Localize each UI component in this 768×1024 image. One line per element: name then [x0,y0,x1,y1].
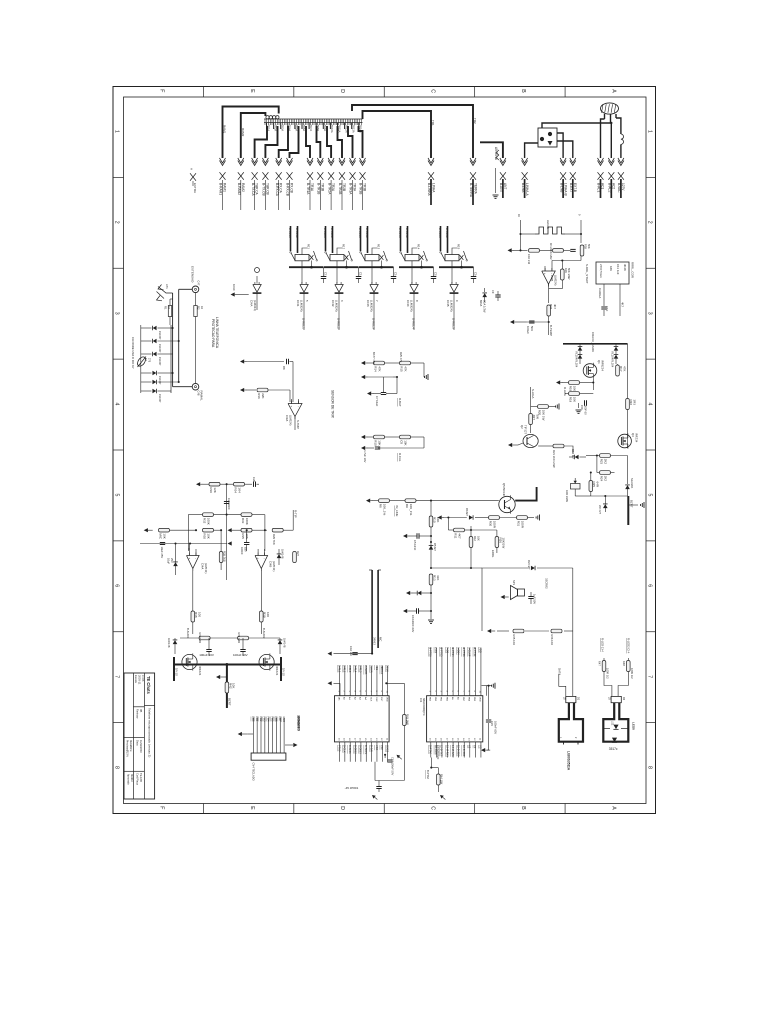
title block [124,673,155,799]
svg-text:CA ONDE USA O FIO K7: CA ONDE USA O FIO K7 [131,337,135,369]
svg-text:10K: 10K [378,440,382,445]
timer feedback line [580,256,582,261]
svg-text:T&R.CB: T&R.CB [265,183,269,195]
svg-text:R13: R13 [377,244,381,250]
svg-text:R39: R39 [263,612,267,618]
svg-text:Escala: Escala [134,675,138,683]
svg-text:RST: RST [380,697,382,702]
svg-text:47K: 47K [404,366,408,371]
resistor R2 [194,306,197,317]
svg-text:Q1: Q1 [597,360,601,364]
sensor rows left [240,359,244,363]
svg-text:M-PT03: M-PT03 [462,647,466,657]
svg-text:B: B [520,806,526,810]
svg-text:1uF 50V: 1uF 50V [533,594,537,604]
svg-text:R38: R38 [584,244,588,249]
svg-text:TR2B: TR2B [342,183,346,191]
svg-text:A-D04: A-D04 [456,647,460,655]
svg-text:TR1B: TR1B [320,183,324,191]
svg-text:R47: R47 [598,661,602,666]
svg-text:2: 2 [647,221,653,224]
svg-text:SERIAL: SERIAL [380,665,384,675]
terminal CN2 top [192,286,199,293]
svg-text:R23: R23 [600,459,604,465]
bus wire W8 [317,126,321,158]
diode D12 [575,455,579,460]
svg-text:TE-10B: TE-10B [139,773,143,782]
svg-text:C6 100nF 63V: C6 100nF 63V [411,615,415,633]
svg-text:0B: 0B [139,709,143,712]
svg-text:100R 1/2: 100R 1/2 [606,668,610,679]
svg-text:B-RX.CB: B-RX.CB [286,183,290,196]
bus wire W7 [306,126,310,158]
svg-text:1N4148: 1N4148 [167,638,171,648]
svg-text:R2: R2 [197,306,201,310]
diode D23 [278,640,283,644]
svg-text:RRRL_COR: RRRL_COR [631,262,635,278]
svg-text:B-TR1A: B-TR1A [306,183,310,195]
svg-text:1N4007: 1N4007 [158,394,161,403]
cap C14 [584,400,586,405]
svg-text:(LM324): (LM324) [410,300,414,312]
output net [548,289,550,303]
svg-text:10K: 10K [404,440,408,445]
svg-text:R9: R9 [405,504,409,508]
feed wires to IC1 [371,570,373,654]
svg-text:D5 M7: D5 M7 [433,543,437,551]
trimpot TP1 [571,484,581,490]
svg-text:CI4A: CI4A [201,563,205,569]
svg-text:CN4 TECLADO: CN4 TECLADO [252,763,256,781]
svg-text:-: - [195,556,196,560]
svg-text:RAM2: RAM2 [241,128,245,137]
svg-text:56K 1/4W: 56K 1/4W [567,268,571,280]
svg-text:1N4007: 1N4007 [158,344,161,353]
svg-text:TR7A: TR7A [309,125,313,132]
svg-text:100uF: 100uF [526,326,530,334]
svg-text:C8: C8 [400,440,404,444]
left branch [530,387,532,433]
svg-text:TR2A: TR2A [331,183,335,192]
svg-text:R15: R15 [457,244,461,250]
svg-text:300F 60: 300F 60 [583,405,587,415]
svg-text:B-TR2A: B-TR2A [327,183,331,195]
driver U5 [450,285,458,293]
svg-text:RL204: RL204 [575,360,579,368]
terminal CN3 bottom [192,383,199,390]
svg-text:TIP127: TIP127 [523,425,527,434]
svg-text:R42: R42 [228,683,232,689]
svg-text:100R: 100R [521,521,525,529]
svg-text:CI41: CI41 [296,300,300,307]
svg-text:CI3A: CI3A [285,415,289,421]
MOSFET Q3 [618,434,632,448]
svg-text:100R8W3: 100R8W3 [297,715,301,729]
svg-text:B-AUD2: B-AUD2 [262,628,266,639]
svg-text:TERRA: TERRA [473,183,477,195]
cap at node [529,320,534,322]
svg-text:10K 1W: 10K 1W [542,410,546,421]
MOSFET Q1 [583,364,597,378]
svg-text:R29 7K8: R29 7K8 [272,534,276,545]
svg-text:Q3: Q3 [631,433,635,437]
svg-text:RAM1: RAM1 [223,125,227,134]
svg-text:C7 10uF: C7 10uF [375,396,379,407]
svg-text:(LM324): (LM324) [288,415,292,425]
svg-text:11/11/2003: 11/11/2003 [139,740,143,753]
svg-text:X2: X2 [468,745,472,749]
cap C5 [416,533,418,538]
off-page arrow EXT [190,173,196,181]
svg-text:-: - [264,556,265,560]
resistor R26 [495,537,499,548]
module X2 wires [603,284,605,306]
bus wire W5 [279,126,288,158]
svg-text:3: 3 [114,312,120,315]
driver U1 [300,285,308,293]
svg-text:TR13A: TR13A [352,125,356,133]
resistor R17 [616,365,620,376]
module LIU [559,703,583,742]
svg-text:R.CAL: R.CAL [398,453,402,462]
bus wire W2 [241,113,266,158]
zener D14 [603,504,608,508]
svg-text:R.LMA: R.LMA [563,387,567,396]
svg-text:C16: C16 [474,272,478,278]
svg-text:R14: R14 [374,366,378,372]
svg-text:S-TRIP: S-TRIP [296,420,300,429]
connector CN1 edge strip [264,118,363,120]
svg-text:R-TIP: R-TIP [294,510,298,518]
svg-text:SENSOR DE TRIP.: SENSOR DE TRIP. [331,390,335,419]
svg-text:B-RL1A: B-RL1A [288,228,292,238]
svg-text:B-RL1B: B-RL1B [295,228,299,238]
svg-text:275: 275 [147,358,150,363]
cap C6 [416,608,418,613]
svg-text:LINHA-A: LINHA-A [525,183,529,196]
emitter resistors [489,516,500,520]
jack top wire to plug [542,123,611,128]
svg-text:C5 10nF: C5 10nF [413,540,417,551]
svg-text:EXTENSAO: EXTENSAO [190,266,194,283]
svg-text:EXTRA: EXTRA [193,183,197,193]
svg-text:SP1: SP1 [512,580,516,586]
resistor R43 feedback [386,682,404,684]
svg-text:R36: R36 [209,487,213,493]
svg-text:ECGRAGO: ECGRAGO [436,745,440,760]
gate feed [556,380,560,384]
off-page arrows row 1 right [500,161,506,166]
thick node bar [627,496,629,525]
svg-text:B-TEMP: B-TEMP [549,325,553,336]
svg-text:B-REL1: B-REL1 [302,318,306,329]
svg-text:LINHA-B: LINHA-B [563,183,567,196]
driver U3 [370,285,378,293]
svg-text:10K: 10K [232,683,236,688]
svg-text:A: A [610,89,616,93]
svg-text:B-RAM1: B-RAM1 [219,183,223,195]
svg-text:E: E [249,89,255,93]
svg-text:B-RL3A: B-RL3A [358,228,362,238]
svg-text:2K2: 2K2 [604,459,608,465]
svg-text:M-PT02: M-PT02 [473,647,477,657]
relay K3 [360,226,362,251]
svg-text:M-PT06: M-PT06 [429,647,433,657]
resistor R42 [225,682,229,693]
svg-text:Cod Placa: Cod Placa [136,773,140,786]
svg-text:B-RL4A: B-RL4A [398,228,402,238]
IC1 CI2 [335,696,390,742]
svg-text:B-RL5B: B-RL5B [445,228,449,238]
svg-text:2767,5mm: 2767,5mm [599,264,603,278]
diode D5 [429,546,434,550]
op-amp U10 [255,556,268,569]
svg-text:R4 22K6 1/02: R4 22K6 1/02 [549,243,553,260]
svg-text:1N4148: 1N4148 [283,638,287,648]
svg-text:56K: 56K [587,244,591,249]
svg-text:100uF 50V: 100uF 50V [233,653,248,657]
svg-text:F: F [158,89,164,92]
bus wire W14 long [352,105,473,158]
resistor R11 [454,528,465,532]
svg-text:B-RL4B: B-RL4B [405,228,409,238]
svg-text:VDD: VDD [385,697,387,702]
svg-text:AC2: AC2 [612,183,616,189]
svg-text:100: 100 [266,612,270,617]
svg-text:68HC908QY4: 68HC908QY4 [422,698,426,716]
svg-text:C15: C15 [434,272,438,278]
zone ticks and labels [113,176,124,178]
feedback resistor R39 [561,269,565,280]
svg-text:R31: R31 [517,521,521,527]
fuse F1 [621,134,624,144]
diode DL6 [152,389,156,394]
svg-text:PD1: PD1 [255,717,258,722]
svg-text:CI4B: CI4B [269,561,273,567]
svg-text:R45 1K0: R45 1K0 [512,635,516,646]
svg-text:R11: R11 [454,533,458,539]
driver U4 [410,285,418,293]
amp out resistors [191,611,195,622]
svg-text:Metalfilme: Metalfilme [129,740,132,752]
svg-text:B-RL4: B-RL4 [353,665,357,673]
svg-text:(LM324): (LM324) [450,300,454,312]
svg-text:C13: C13 [359,272,363,278]
svg-text:CARGA: CARGA [598,288,602,298]
bus wire W4 [265,126,277,158]
svg-text:(LM324): (LM324) [335,300,339,312]
svg-text:34063: 34063 [373,637,377,645]
arrow to R42 [216,675,220,679]
svg-text:10uF: 10uF [167,558,171,564]
off-page arrows row 1 [220,161,226,166]
svg-text:LINHA TELEFONICA: LINHA TELEFONICA [215,317,219,349]
svg-text:4.7uF 16V: 4.7uF 16V [363,450,367,463]
svg-text:CLK: CLK [369,697,371,702]
svg-text:RX.CB: RX.CB [290,183,294,193]
svg-text:D24 M7: D24 M7 [527,560,531,570]
svg-text:14-M-SA1: 14-M-SA1 [451,745,455,757]
svg-text:Data: Data [136,740,140,746]
svg-text:100: 100 [198,612,202,617]
svg-text:B-LINHA: B-LINHA [427,183,431,196]
svg-text:150: 150 [580,405,584,410]
svg-text:B-LNB: B-LNB [559,183,563,192]
antenna arrester E1 [158,287,173,294]
svg-text:A: A [610,806,616,810]
svg-text:(LM741): (LM741) [272,561,276,571]
svg-text:3517c: 3517c [609,747,618,751]
svg-text:R38: R38 [194,612,198,618]
svg-text:R33: R33 [241,518,245,524]
svg-text:10uF 25V: 10uF 25V [160,547,164,559]
svg-text:PROTECAO PARA: PROTECAO PARA [211,319,215,348]
svg-text:100K: 100K [245,518,249,525]
svg-text:Q5 BD140: Q5 BD140 [502,483,506,497]
thick output bus [174,664,281,666]
svg-text:2003-11: 2003-11 [137,675,141,685]
svg-text:R25 47K: R25 47K [399,352,403,363]
svg-text:VD1: VD1 [375,665,379,671]
svg-text:4R7: 4R7 [532,415,536,421]
svg-text:15-B-SD0: 15-B-SD0 [456,745,460,757]
ground g1 [578,403,580,408]
IC2 CI1 micro [427,696,483,742]
cap C7 [381,392,386,394]
diode D13 [625,485,630,489]
row2 [203,513,214,517]
svg-text:C: C [430,806,436,810]
svg-text:C10 1n0: C10 1n0 [527,254,531,265]
diode D22 [173,640,178,644]
antenna bus wire [480,142,503,158]
speaker enclosure [482,568,528,631]
cal rows [361,435,365,439]
svg-text:B-AUD1: B-AUD1 [364,665,368,675]
svg-text:PD5: PD5 [270,717,273,722]
svg-text:BAT? 47K: BAT? 47K [372,352,376,364]
svg-text:B-AUD1: B-AUD1 [186,628,190,639]
svg-text:(LM324): (LM324) [370,300,374,312]
diode D10 [482,293,487,297]
svg-text:22K: 22K [261,393,265,398]
svg-text:TE Chats: TE Chats [146,676,151,694]
svg-text:10UF: 10UF [232,284,236,291]
svg-text:RX.CA: RX.CA [279,183,283,194]
svg-text:R11: R11 [307,244,311,249]
resistor R12 [469,537,473,548]
svg-text:10K: 10K [573,397,577,402]
svg-text:R30: R30 [203,533,207,539]
CN1 pin stubs [266,123,268,129]
svg-text:1: 1 [647,130,653,133]
svg-text:10K: 10K [476,536,480,541]
svg-text:7: 7 [647,675,653,678]
svg-text:M-PT04: M-PT04 [451,647,455,657]
svg-text:3: 3 [647,312,653,315]
svg-text:4K7: 4K7 [553,304,557,309]
svg-text:CI43: CI43 [366,300,370,307]
ferrite coils on CN1 [266,116,269,119]
svg-text:C12: C12 [324,272,328,278]
transistor Q4 [499,496,515,512]
diode DL1 [153,326,157,331]
svg-text:GND: GND [282,717,285,723]
svg-text:R43 1M0: R43 1M0 [406,714,410,725]
svg-text:3R3: 3R3 [632,400,636,406]
svg-text:OSC2: OSC2 [385,745,389,753]
bottom resistors [513,629,524,633]
bus wire W6 [290,126,299,158]
svg-text:B-TX.CB: B-TX.CB [262,183,266,196]
svg-text:R-BAT: R-BAT [398,398,402,407]
svg-text:B-TR2B: B-TR2B [338,183,342,194]
driver U6 column [256,276,258,284]
svg-text:R41 10R: R41 10R [237,633,241,644]
protection wires [179,288,193,290]
svg-text:S-LIGA: S-LIGA [531,389,535,399]
svg-text:CI44: CI44 [406,300,410,307]
svg-text:TR10A: TR10A [330,125,334,133]
input row IN_LINE [366,499,370,503]
diode DL2 [153,339,157,344]
svg-text:5: 5 [647,493,653,496]
bus wire W10 [338,126,343,158]
svg-text:B-TX.CA: B-TX.CA [251,183,255,196]
svg-text:3K48: 3K48 [623,264,627,271]
svg-text:4K7: 4K7 [458,533,462,539]
svg-text:B-AC2: B-AC2 [608,183,612,193]
svg-text:R19: R19 [569,397,573,403]
svg-text:1N4148: 1N4148 [281,549,285,559]
ground near antenna [495,168,497,193]
resistor R1 link [169,317,171,326]
header CN4 [251,753,286,760]
svg-text:B-VAC: B-VAC [617,183,621,193]
svg-text:TR3A: TR3A [281,125,285,132]
svg-text:AT1: AT1 [165,284,169,289]
svg-text:DATA: DATA [558,668,562,675]
svg-text:10R 1/2W: 10R 1/2W [565,490,569,502]
bus wire W13 long [363,111,432,158]
svg-text:R27: R27 [296,551,300,556]
svg-text:25V: 25V [170,558,174,563]
svg-text:10K/1W: 10K/1W [502,538,506,549]
op-amp U9 [187,556,200,569]
svg-text:Precisao(R)1%: Precisao(R)1% [126,740,129,758]
plug wires [601,119,605,158]
svg-text:41K: 41K [436,575,440,580]
svg-text:B-RL2B: B-RL2B [330,228,334,238]
LED diodes inside [603,727,610,729]
svg-text:(LM324): (LM324) [300,300,304,312]
svg-text:R8: R8 [379,504,383,508]
diode D20 [173,562,178,566]
svg-text:PD6: PD6 [274,717,277,722]
pulse waveform symbol [521,233,536,235]
resistor R24 [600,471,611,475]
varistor RV1 [136,355,147,367]
svg-text:IRFZ24: IRFZ24 [275,666,279,676]
connector J3 [611,696,621,702]
svg-text:VSS: VSS [375,745,379,750]
svg-text:(LM324): (LM324) [253,300,257,311]
svg-text:PD3: PD3 [263,717,266,722]
svg-text:RL204: RL204 [611,360,615,368]
svg-text:MA910: MA910 [130,774,133,783]
svg-text:4: 4 [647,403,653,406]
svg-text:D: D [339,806,345,810]
